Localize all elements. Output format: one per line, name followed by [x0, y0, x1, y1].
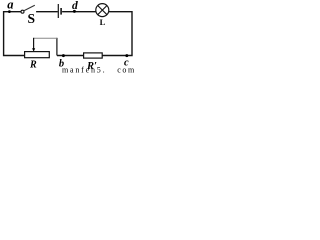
svg-text:manfen5.: manfen5. — [62, 66, 106, 73]
svg-text:L: L — [100, 17, 106, 27]
svg-text:R: R — [29, 60, 37, 71]
svg-text:com: com — [117, 66, 136, 73]
svg-text:a: a — [7, 0, 13, 12]
svg-text:S: S — [28, 11, 36, 26]
svg-text:d: d — [72, 0, 78, 12]
